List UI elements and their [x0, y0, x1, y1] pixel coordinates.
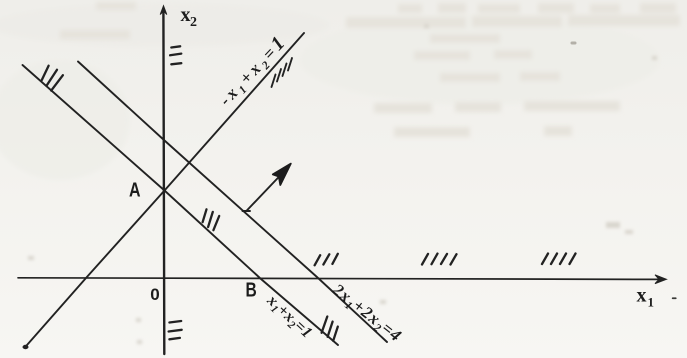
gradient arrow shaft [247, 172, 284, 211]
hatch: x2 axis below origin (three horizontal dashes) [169, 321, 181, 323]
hatch: below ascending line near its top (4 strokes) [272, 58, 293, 87]
hatch: above line x1+x2=1 mid-segment (3 strokes) [203, 209, 207, 222]
x2 axis [162, 9, 165, 354]
x1 axis [18, 278, 660, 280]
hatch: upper-left of line x1+x2=1 near its start (3 strokes) [42, 66, 49, 80]
gradient arrow base tick [243, 210, 251, 212]
hatch: x2 axis above origin (three horizontal dashes) [171, 46, 180, 47]
hatch: above x1 axis group 2 (4 strokes) [422, 254, 428, 265]
line x1+x2=1 (descending, through A and B) [23, 65, 339, 345]
hatch: above x1 axis group 3 (4 strokes) [542, 254, 548, 265]
hatch marks [42, 46, 576, 341]
svg-text:x: x [637, 284, 647, 306]
small ink dash right of x1 label [672, 297, 677, 299]
x2 axis arrowhead [160, 6, 167, 15]
x1 axis arrowhead [655, 275, 667, 284]
line 2x1+2x2=4 (descending, parallel) [78, 62, 387, 343]
svg-text:1: 1 [648, 295, 655, 310]
label x1 (right) [637, 284, 655, 309]
svg-text:x: x [181, 4, 191, 26]
label x2 (top) [181, 4, 198, 30]
svg-text:2: 2 [190, 15, 197, 30]
svg-text:0: 0 [150, 285, 159, 304]
svg-text:B: B [246, 279, 257, 301]
line -x1+x2=1 (ascending) [25, 33, 304, 348]
small gray fleck top right [571, 42, 577, 45]
svg-text:A: A [129, 178, 141, 201]
gradient arrow head (filled) [273, 164, 291, 185]
hatch: above x1 axis group 1 (3 strokes) [315, 255, 321, 265]
pen blob at bottom end of ascending line [23, 345, 29, 349]
faint paper mottling patches [0, 3, 660, 180]
hatch: above line x1+x2=1 near lower end (3 strokes) [322, 317, 328, 333]
ghost bleed-through text rows (top-right) [60, 2, 680, 137]
